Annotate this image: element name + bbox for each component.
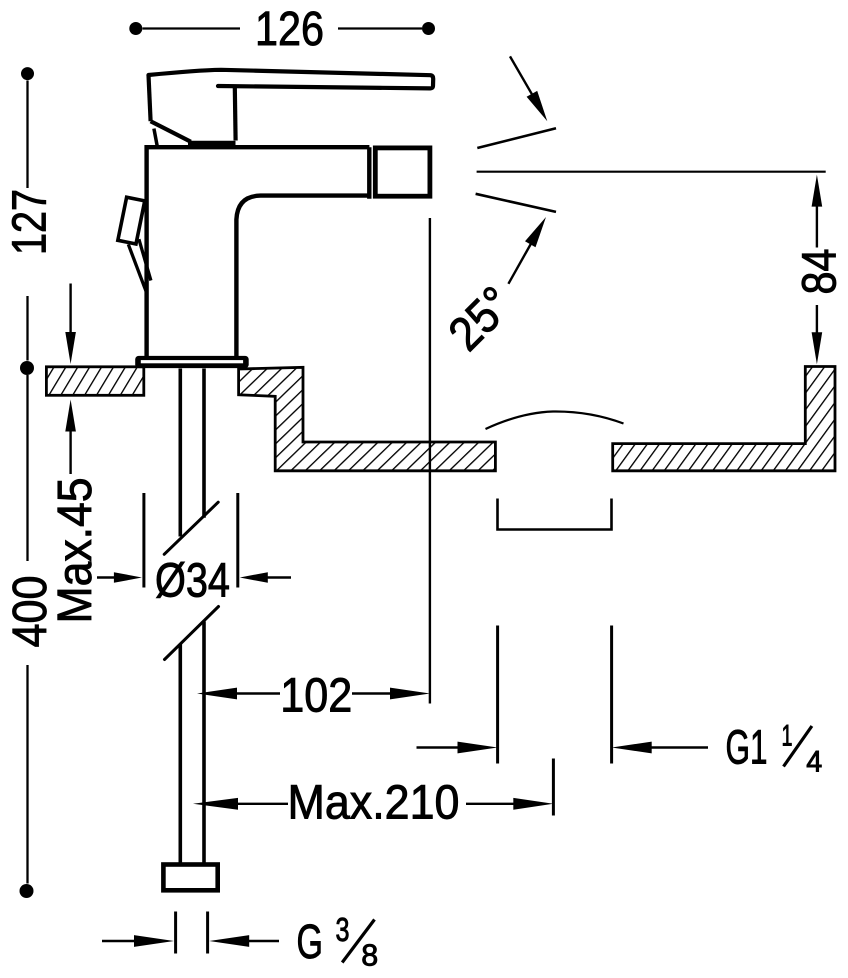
dimension O34 extension line left bbox=[142, 493, 145, 588]
dimension Max.45 upper arrow bbox=[65, 284, 76, 365]
handle front vertical bbox=[233, 87, 238, 141]
dimension G1-1/4 right arrow bbox=[612, 742, 708, 754]
dimension 127 line bbox=[26, 81, 28, 361]
dimension G3/8 left arrow bbox=[102, 935, 174, 947]
dimension 400 dot bottom bbox=[20, 884, 34, 898]
upper leader arrow bbox=[510, 56, 547, 121]
dimension 84 lower arrow bbox=[812, 305, 823, 364]
extension line spout outlet vertical bbox=[429, 218, 431, 704]
svg-text:1: 1 bbox=[782, 720, 793, 753]
dimension 127 dot top bbox=[21, 67, 34, 80]
lower angle line bbox=[476, 194, 556, 212]
water surface arc bbox=[486, 411, 624, 429]
faucet supply pipe left upper bbox=[179, 369, 183, 537]
svg-text:Max.210: Max.210 bbox=[288, 777, 460, 830]
spout axis reference line bbox=[477, 171, 826, 173]
svg-text:G: G bbox=[297, 916, 324, 969]
dimension 102 left arrow bbox=[197, 688, 280, 700]
faucet base flange bbox=[135, 356, 249, 368]
handle lever outline bbox=[149, 70, 434, 89]
dimension O34 right arrow bbox=[240, 572, 291, 583]
drain U bbox=[498, 499, 612, 530]
handle small tick bbox=[154, 129, 157, 146]
svg-text:84: 84 bbox=[794, 249, 847, 295]
countertop step piece hatched bbox=[239, 367, 496, 471]
faucet supply pipe left lower bbox=[179, 644, 183, 864]
svg-text:102: 102 bbox=[280, 670, 352, 723]
countertop left slab hatched bbox=[46, 367, 143, 396]
handle cap bar bbox=[188, 141, 236, 148]
pipe break diagonal upper bbox=[164, 502, 218, 554]
dimension Max.210 left arrow bbox=[193, 798, 288, 810]
dimension 102 right arrow bbox=[352, 688, 430, 700]
dimension O34 left arrow bbox=[97, 572, 142, 583]
dimension 127/400 shared dot bbox=[20, 361, 34, 375]
dimension 400 line bbox=[26, 375, 28, 884]
aerator box bbox=[375, 148, 430, 196]
countertop right piece hatched bbox=[613, 367, 835, 471]
dimension O34 extension line right bbox=[236, 493, 239, 588]
upper angle line bbox=[477, 128, 556, 148]
svg-text:G1: G1 bbox=[726, 722, 768, 775]
drain extension line left bbox=[496, 626, 499, 764]
dimension Max.210 right arrow bbox=[466, 798, 553, 810]
handle bottom diagonal bbox=[151, 121, 191, 142]
svg-text:Max.45: Max.45 bbox=[49, 478, 102, 624]
dimension G3/8 extension line right bbox=[206, 912, 209, 954]
dimension G3/8 extension line left bbox=[174, 912, 177, 954]
dimension 126 line bbox=[143, 27, 423, 29]
svg-text:3: 3 bbox=[336, 911, 350, 948]
lower leader arrow (25 deg) bbox=[508, 217, 546, 284]
G3/8 text bbox=[297, 911, 379, 973]
faucet supply pipe right upper bbox=[202, 369, 206, 518]
dimension 126 dot right bbox=[422, 22, 435, 35]
faucet body outline bbox=[144, 147, 369, 357]
svg-text:127: 127 bbox=[4, 189, 57, 255]
dimension 126 dot left bbox=[129, 22, 142, 35]
drain extension line right bbox=[610, 626, 613, 764]
dimension G1-1/4 left arrow bbox=[417, 742, 498, 754]
pipe break diagonal lower bbox=[165, 607, 219, 660]
dimension G3/8 right arrow bbox=[209, 935, 279, 947]
bottom supply block bbox=[163, 865, 217, 891]
G1-1/4 text bbox=[726, 720, 823, 779]
dimension 84 upper arrow bbox=[812, 175, 823, 248]
svg-text:8: 8 bbox=[361, 938, 378, 973]
ghost handle stem line right bbox=[139, 239, 151, 280]
drain center extension line bbox=[552, 759, 555, 816]
ghost handle stem line left bbox=[128, 244, 147, 293]
svg-text:126: 126 bbox=[255, 3, 324, 56]
svg-text:4: 4 bbox=[806, 746, 822, 779]
faucet supply pipe right lower bbox=[202, 622, 206, 865]
handle left edge bbox=[149, 75, 151, 121]
svg-text:Ø34: Ø34 bbox=[155, 555, 230, 608]
dimension Max.45 lower arrow bbox=[65, 400, 76, 475]
ghost handle knob bbox=[118, 197, 145, 244]
